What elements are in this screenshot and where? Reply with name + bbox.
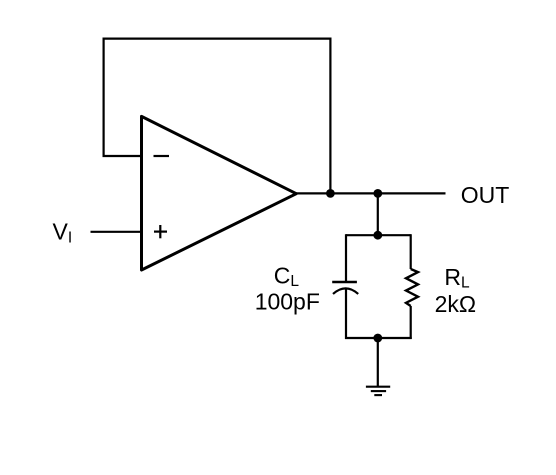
wire: load network top rail xyxy=(346,234,411,236)
resistor RL zigzag xyxy=(406,269,418,306)
ground symbol xyxy=(366,386,390,388)
node: top of load network xyxy=(373,231,382,240)
wire: capacitor bottom lead xyxy=(345,289,347,339)
op-amp inverting input symbol (minus) xyxy=(154,155,170,157)
svg-text:100pF: 100pF xyxy=(255,289,320,315)
node: feedback/output junction xyxy=(326,189,335,198)
wire: load branch down from output xyxy=(377,193,379,235)
wire: ground stem xyxy=(377,338,379,387)
wire: resistor bottom lead xyxy=(410,306,412,339)
wire: load network bottom rail xyxy=(345,337,412,339)
wire: resistor top lead xyxy=(410,234,412,269)
capacitor CL curved bottom plate xyxy=(333,288,358,294)
node: bottom of load network xyxy=(373,334,382,343)
wire: capacitor top lead xyxy=(345,234,347,281)
svg-text:2kΩ: 2kΩ xyxy=(435,291,477,317)
node: load branch junction on output wire xyxy=(373,189,382,198)
wire: output to OUT xyxy=(293,192,446,194)
wire: feedback loop from inverting input up over to output xyxy=(104,39,331,194)
op-amp non-inverting input symbol (plus) xyxy=(154,231,167,233)
wire: non-inverting input from VI xyxy=(91,231,142,233)
svg-text:OUT: OUT xyxy=(461,182,510,208)
op-amp U1 xyxy=(142,116,297,270)
capacitor CL top plate xyxy=(332,281,357,284)
